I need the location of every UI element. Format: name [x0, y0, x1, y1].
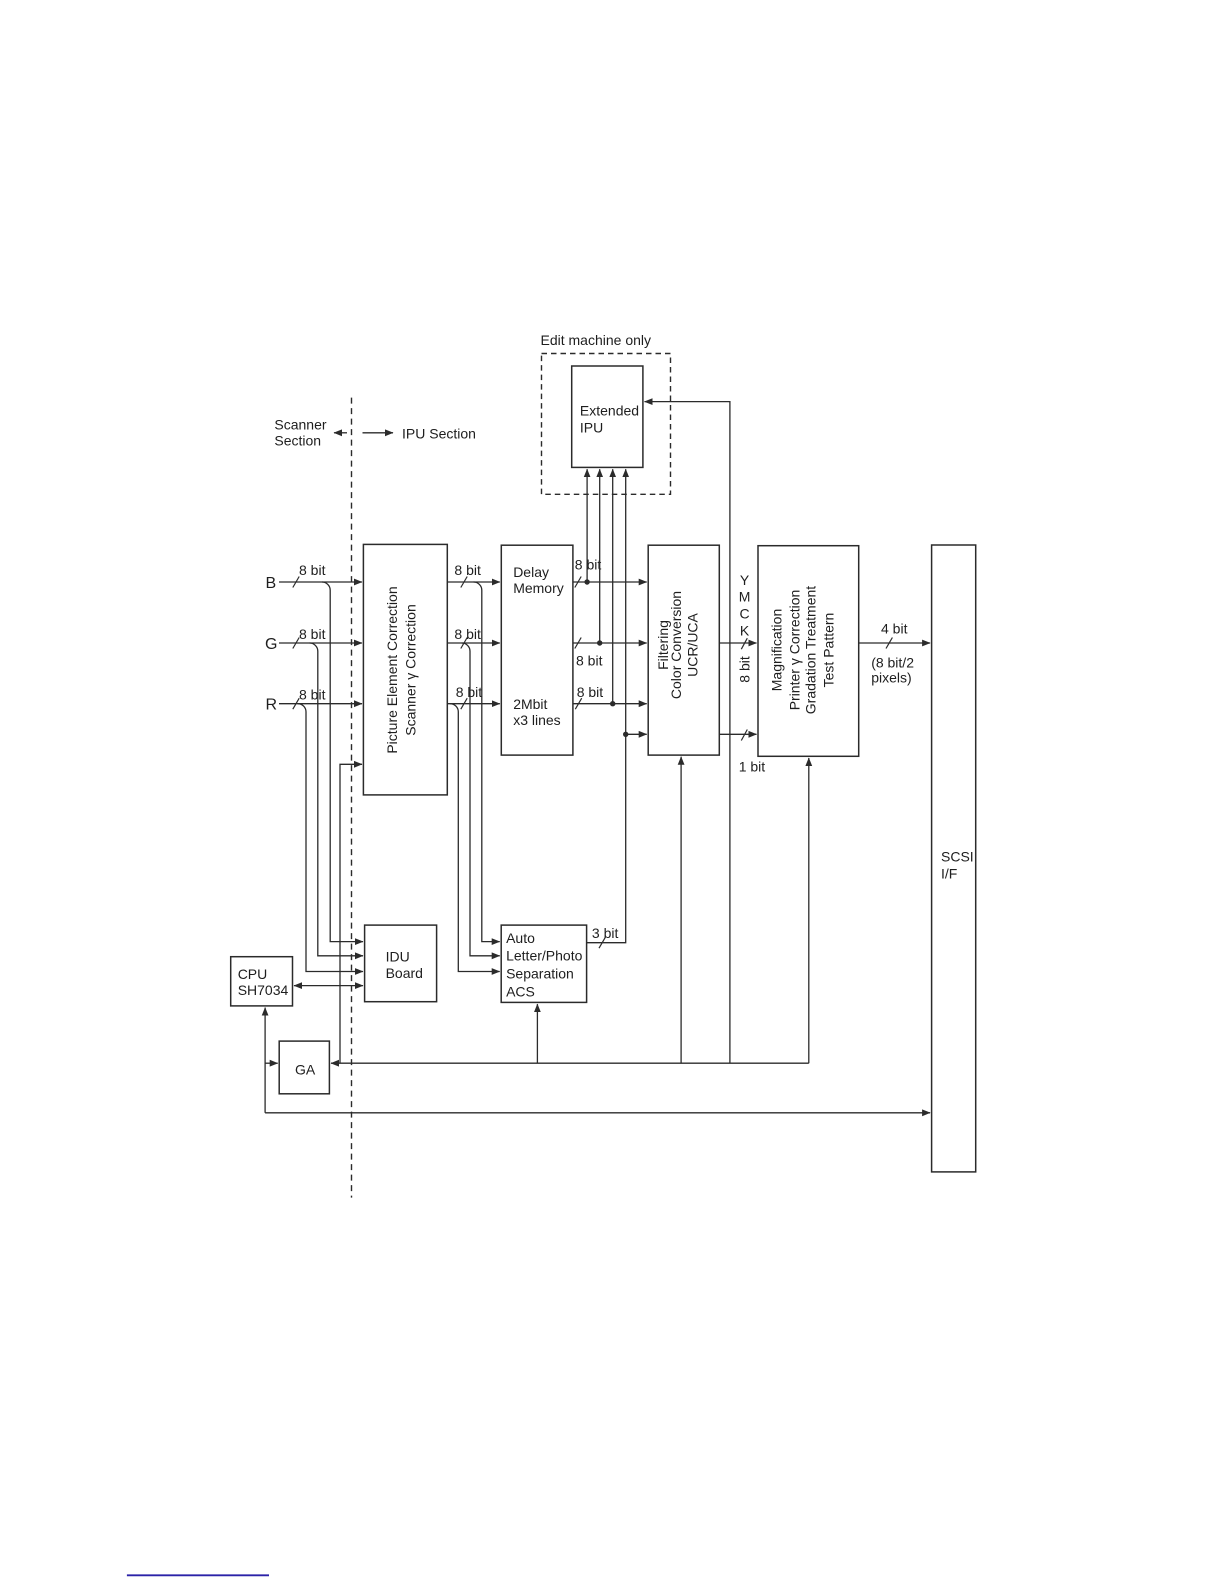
wire Filtering to Magnification 1bit — [719, 730, 765, 775]
svg-text:Delay: Delay — [513, 564, 549, 580]
section boundary dashed line — [351, 398, 353, 1198]
svg-text:Section: Section — [274, 433, 321, 449]
wire control branch up to PEC — [340, 764, 362, 1063]
wire Delay to Filtering row1 — [573, 557, 647, 588]
svg-text:Gradation Treatment: Gradation Treatment — [803, 586, 819, 715]
wire row3 branch to ACS — [450, 704, 500, 972]
wire B branch to IDU — [322, 582, 363, 942]
svg-text:I/F: I/F — [941, 866, 957, 882]
svg-text:Separation: Separation — [506, 966, 574, 982]
block Picture Element Correction / Scanner gamma Correction — [363, 544, 447, 795]
wire tap row1 to Extended IPU — [586, 469, 588, 582]
svg-text:Test Pattern: Test Pattern — [821, 613, 837, 688]
svg-text:Color Conversion: Color Conversion — [668, 591, 684, 699]
svg-text:x3 lines: x3 lines — [513, 712, 560, 728]
svg-text:(8 bit/2: (8 bit/2 — [871, 655, 914, 671]
svg-text:Edit machine only: Edit machine only — [541, 332, 652, 348]
wire Delay to Filtering row2 — [573, 638, 647, 669]
arrow to scanner side — [334, 432, 347, 434]
svg-text:3 bit: 3 bit — [592, 925, 619, 941]
svg-text:4 bit: 4 bit — [881, 621, 908, 637]
block IDU Board — [365, 925, 437, 1002]
svg-text:8 bit: 8 bit — [736, 656, 752, 683]
wire Extended IPU feedback from control bus — [645, 402, 730, 1064]
svg-text:R: R — [266, 697, 278, 714]
svg-text:8 bit: 8 bit — [299, 626, 326, 642]
label Y M C K — [739, 572, 751, 638]
svg-text:8 bit: 8 bit — [299, 687, 326, 703]
wire tap row3 to Extended IPU — [612, 469, 614, 704]
svg-text:8 bit: 8 bit — [454, 626, 481, 642]
svg-text:C: C — [740, 605, 750, 621]
junction dot row1 — [584, 579, 589, 584]
block SCSI I/F — [932, 545, 976, 1172]
svg-text:Auto: Auto — [506, 930, 535, 946]
svg-text:Extended: Extended — [580, 403, 639, 419]
block Auto Letter/Photo Separation ACS — [501, 925, 586, 1002]
svg-text:B: B — [266, 575, 277, 592]
wire ACS 3bit up to Extended IPU — [587, 469, 626, 948]
wire PEC to Delay row3 — [447, 684, 500, 709]
wire G input — [279, 626, 362, 649]
svg-text:Y: Y — [740, 572, 750, 588]
svg-text:8 bit: 8 bit — [454, 562, 481, 578]
block Extended IPU U-EXT — [572, 366, 643, 467]
svg-text:Memory: Memory — [513, 580, 564, 596]
svg-text:UCR/UCA: UCR/UCA — [684, 612, 700, 676]
svg-text:IPU Section: IPU Section — [402, 426, 476, 442]
svg-text:SH7034: SH7034 — [238, 982, 289, 998]
wire R input — [279, 687, 362, 710]
svg-text:1 bit: 1 bit — [739, 759, 766, 775]
wire Magnification to SCSI 4bit — [859, 621, 930, 686]
svg-text:8 bit: 8 bit — [299, 562, 326, 578]
junction dot row2 — [597, 640, 602, 645]
svg-text:Scanner γ Correction: Scanner γ Correction — [403, 604, 419, 736]
svg-text:Picture Element Correction: Picture Element Correction — [384, 586, 400, 753]
svg-text:IPU: IPU — [580, 420, 603, 436]
svg-text:Scanner: Scanner — [274, 417, 326, 433]
wire R branch to IDU — [298, 704, 363, 972]
wire control branch up to ACS — [536, 1004, 538, 1063]
block Filtering / Color Conversion / UCR-UCA — [648, 545, 719, 755]
svg-text:M: M — [739, 589, 751, 605]
wire Delay to Filtering row3 — [573, 684, 647, 709]
svg-text:8 bit: 8 bit — [576, 653, 603, 669]
svg-text:Magnification: Magnification — [768, 609, 784, 692]
svg-text:K: K — [740, 623, 750, 639]
svg-text:8 bit: 8 bit — [456, 684, 483, 700]
wire bottom bus CPU to SCSI — [265, 1112, 930, 1114]
svg-text:G: G — [265, 636, 277, 653]
wire control branch up to Magnification — [808, 758, 810, 1063]
arrow to IPU side — [363, 432, 394, 434]
junction dot row4 — [623, 732, 628, 737]
svg-text:8 bit: 8 bit — [577, 684, 604, 700]
svg-text:CPU: CPU — [238, 966, 268, 982]
svg-text:8 bit: 8 bit — [575, 557, 602, 573]
block CPU SH7034 — [231, 957, 293, 1006]
svg-text:2Mbit: 2Mbit — [513, 696, 547, 712]
svg-text:pixels): pixels) — [871, 670, 911, 686]
block GA — [279, 1041, 329, 1094]
junction dot row3 — [610, 701, 615, 706]
dashed enclosure edit machine — [542, 354, 671, 495]
wire row1 branch to ACS — [474, 582, 500, 942]
svg-text:SCSI: SCSI — [941, 849, 974, 865]
wire B input — [279, 562, 362, 588]
label Scanner Section — [274, 417, 326, 449]
wire CPU riser with GA stub — [265, 1008, 278, 1113]
svg-text:IDU: IDU — [386, 949, 410, 965]
svg-text:Letter/Photo: Letter/Photo — [506, 948, 582, 964]
block Magnification / Printer gamma Correction / Gradation Treatment / Test Pattern — [758, 546, 859, 757]
wire CPU-IDU bidirectional — [294, 985, 363, 987]
block Delay Memory — [501, 545, 573, 755]
svg-text:Printer γ Correction: Printer γ Correction — [786, 590, 802, 711]
svg-text:Board: Board — [386, 965, 423, 981]
wire control branch up to Filtering — [680, 757, 682, 1063]
wire G branch to IDU — [310, 643, 363, 956]
footer link underline — [127, 1574, 269, 1576]
wire row2 branch to ACS — [462, 643, 500, 956]
wire PEC to Delay row2 — [447, 626, 500, 649]
wire control bus horizontal into GA — [331, 1062, 809, 1064]
svg-text:ACS: ACS — [506, 984, 535, 1000]
svg-text:GA: GA — [295, 1062, 316, 1078]
wire Filtering to Magnification YMCK — [719, 638, 756, 649]
wire tap row2 to Extended IPU — [599, 469, 601, 643]
wire PEC to Delay row1 — [447, 562, 500, 588]
wire ACS 3bit branch into Filtering row4 — [626, 733, 647, 735]
